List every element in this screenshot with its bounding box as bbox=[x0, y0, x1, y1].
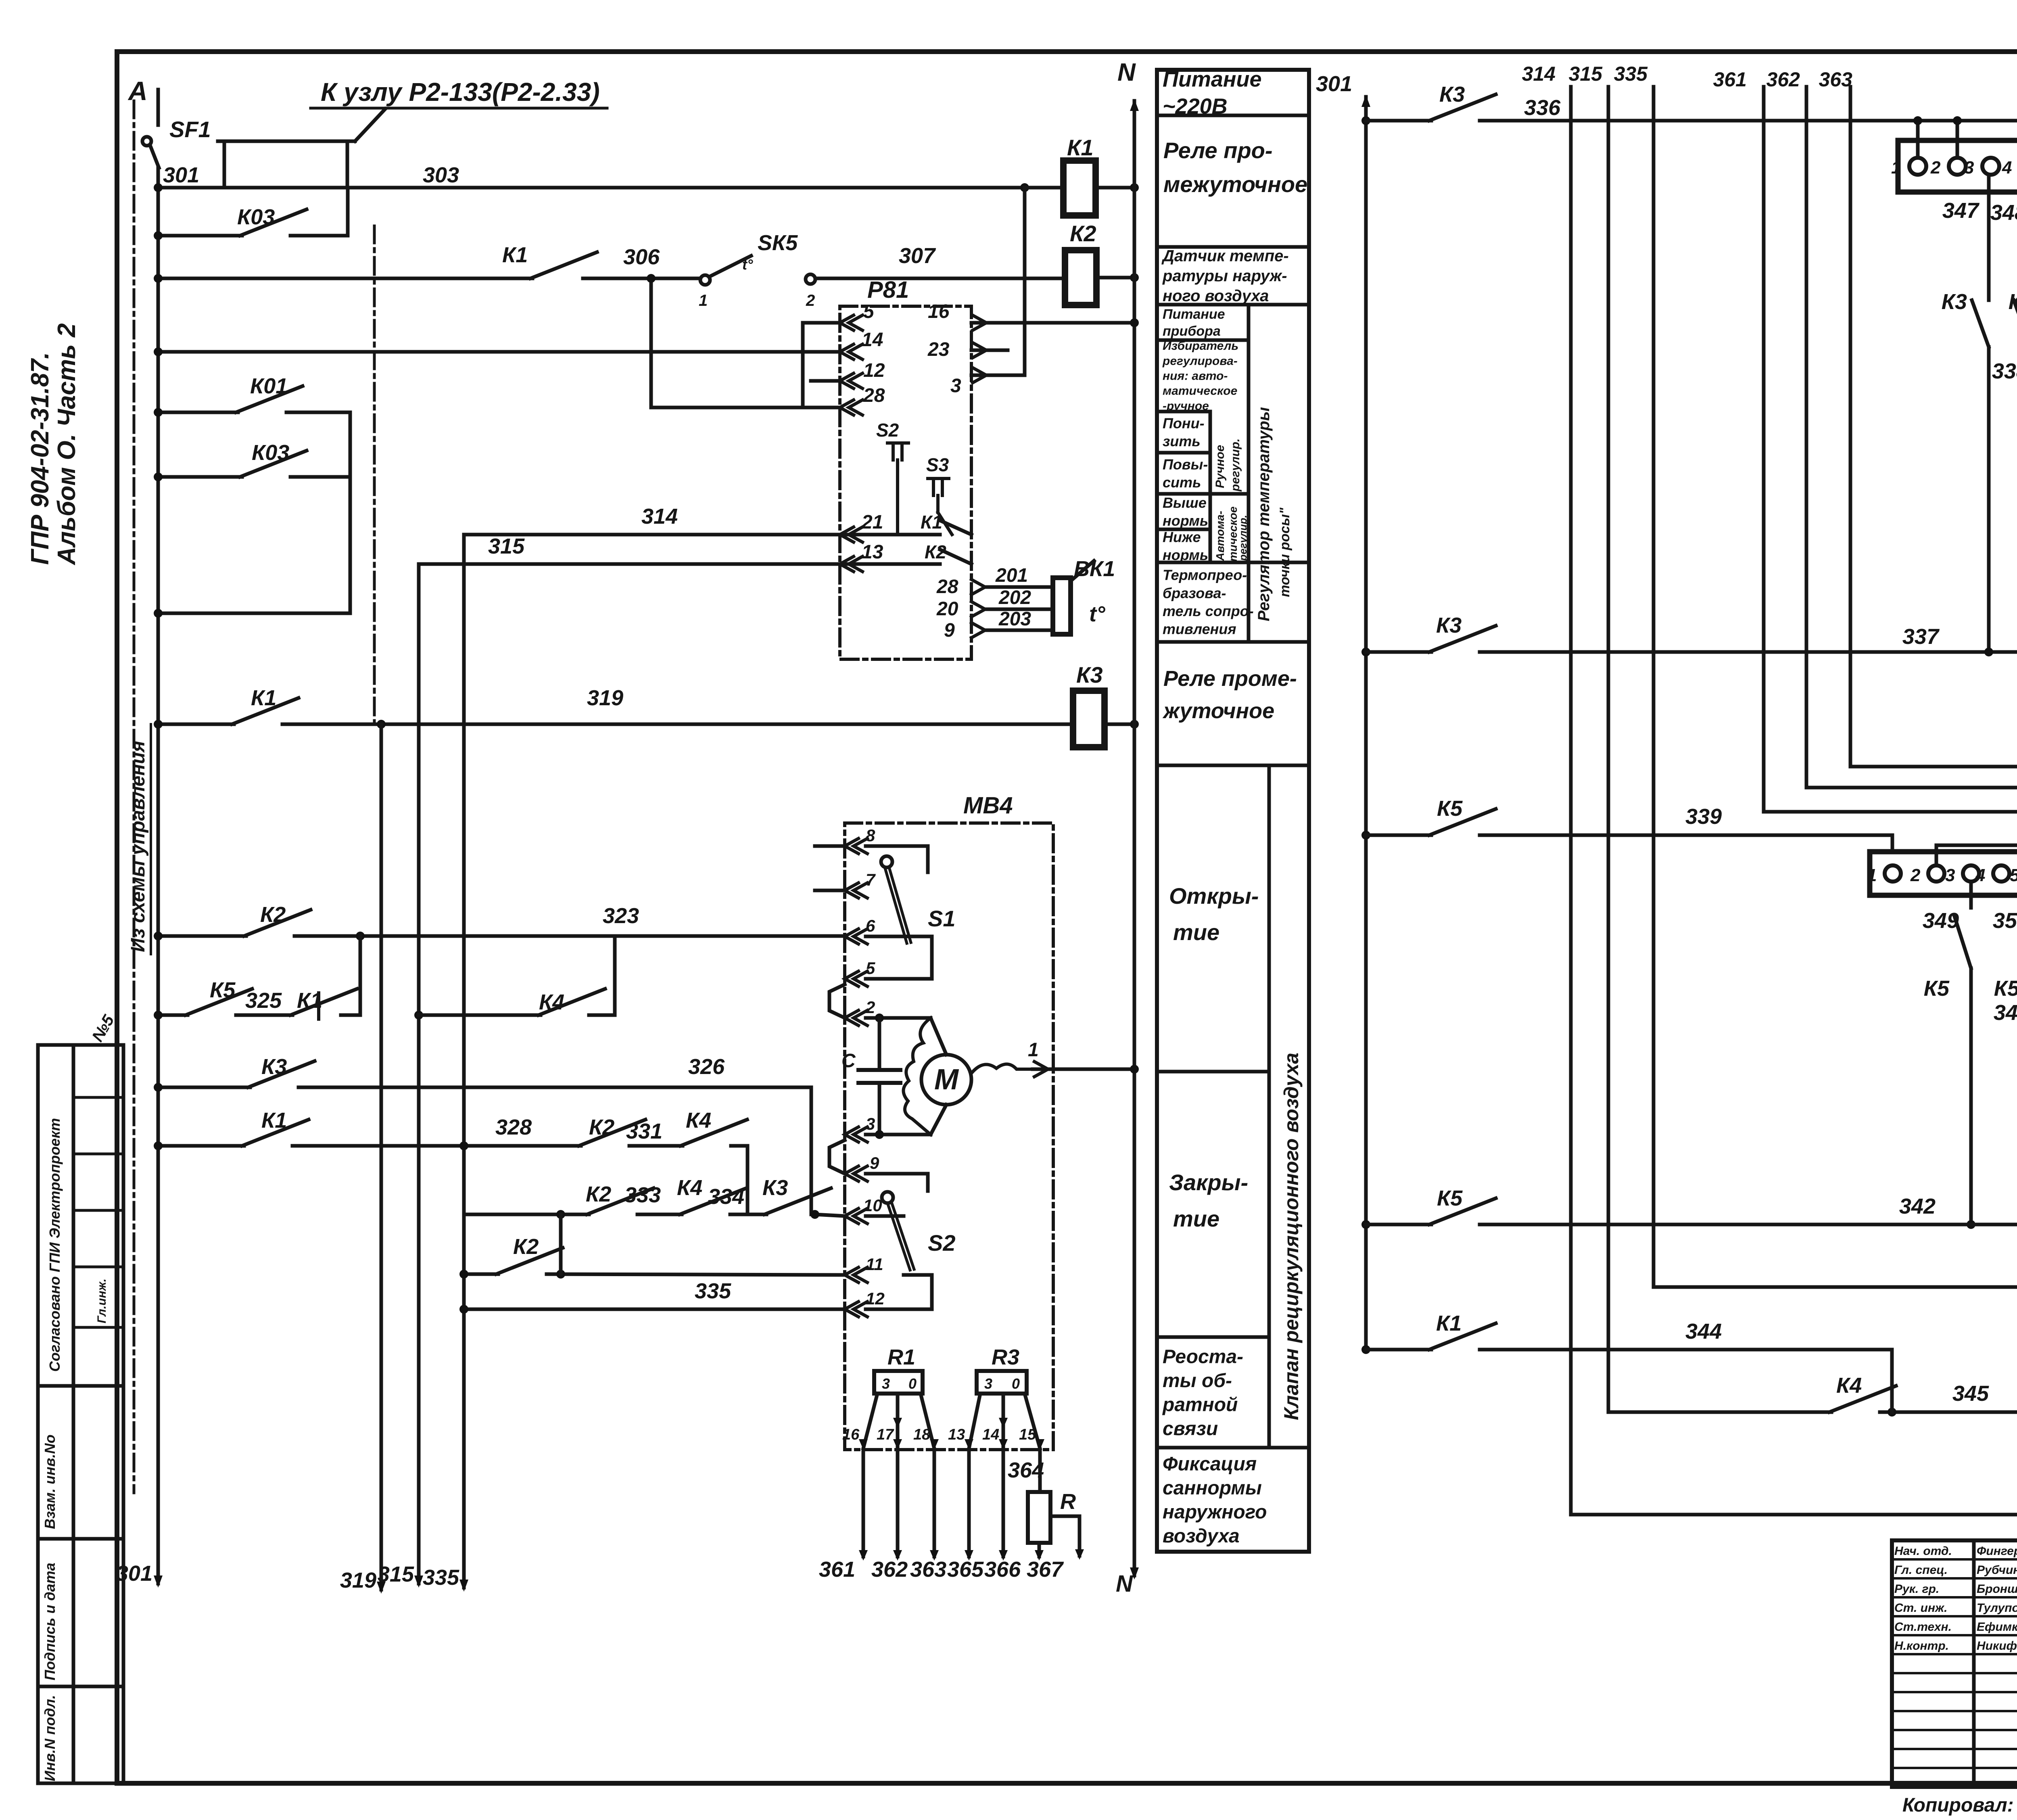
svg-text:Пони-: Пони- bbox=[1163, 415, 1205, 431]
svg-text:21: 21 bbox=[861, 512, 883, 533]
svg-text:12: 12 bbox=[863, 360, 885, 381]
svg-text:К3: К3 bbox=[1439, 82, 1465, 107]
svg-text:регулир.: регулир. bbox=[1237, 515, 1249, 561]
svg-text:К3: К3 bbox=[762, 1176, 788, 1200]
svg-text:Откры-: Откры- bbox=[1169, 883, 1259, 909]
svg-text:К2: К2 bbox=[586, 1182, 611, 1206]
svg-text:3: 3 bbox=[866, 1114, 875, 1133]
svg-text:16: 16 bbox=[928, 301, 950, 322]
svg-text:А: А bbox=[127, 76, 148, 106]
svg-text:12: 12 bbox=[866, 1289, 885, 1308]
svg-text:350: 350 bbox=[1993, 909, 2017, 933]
svg-text:нормы: нормы bbox=[1163, 547, 1212, 563]
svg-text:13: 13 bbox=[862, 541, 883, 563]
motor M of MB4 bbox=[921, 1055, 971, 1105]
svg-text:323: 323 bbox=[603, 904, 639, 928]
svg-text:334: 334 bbox=[708, 1185, 744, 1209]
svg-text:ты об-: ты об- bbox=[1163, 1370, 1232, 1392]
switch S2 of MB4 bbox=[866, 1174, 928, 1191]
callout K uzlu P2-133 bbox=[223, 141, 226, 188]
svg-text:9: 9 bbox=[944, 620, 955, 641]
svg-text:Ниже: Ниже bbox=[1163, 529, 1201, 545]
svg-text:10: 10 bbox=[863, 1196, 882, 1215]
P81 arrow 28 bbox=[840, 400, 854, 415]
wire 363 to KB2 t6 bbox=[1850, 87, 2017, 843]
svg-text:315: 315 bbox=[488, 534, 525, 558]
middle legend table bbox=[1157, 70, 1309, 1552]
contact K1 row wire 319 bbox=[158, 723, 234, 726]
svg-text:R: R bbox=[1060, 1490, 1076, 1514]
svg-text:336: 336 bbox=[1524, 96, 1561, 120]
svg-text:R1: R1 bbox=[887, 1345, 915, 1369]
svg-text:17: 17 bbox=[877, 1426, 894, 1443]
svg-text:К1: К1 bbox=[1436, 1311, 1462, 1335]
svg-text:333: 333 bbox=[624, 1183, 661, 1207]
svg-text:314: 314 bbox=[641, 504, 678, 529]
staff signature table bbox=[1892, 1540, 2017, 1787]
svg-text:20: 20 bbox=[936, 598, 958, 620]
svg-text:342: 342 bbox=[1899, 1194, 1936, 1218]
svg-text:Рубчинский: Рубчинский bbox=[1977, 1563, 2017, 1577]
svg-text:0: 0 bbox=[1012, 1375, 1020, 1392]
terminal strip KB1 bbox=[1898, 140, 2017, 192]
svg-text:N: N bbox=[1117, 59, 1136, 86]
vertical wire 335 run bbox=[462, 535, 466, 1588]
bus tap row bbox=[158, 612, 350, 615]
wire 314 elbow to K5 coil bbox=[1571, 1513, 2017, 1517]
svg-text:Реле проме-: Реле проме- bbox=[1163, 667, 1297, 691]
svg-text:335: 335 bbox=[423, 1565, 459, 1590]
svg-text:К5: К5 bbox=[1437, 796, 1463, 821]
svg-text:Альбом О. Часть 2: Альбом О. Часть 2 bbox=[53, 323, 81, 566]
svg-text:Реоста-: Реоста- bbox=[1163, 1346, 1243, 1368]
wire from KB2 t2 to N bus bbox=[1936, 845, 2017, 865]
MB4 bottom terminals 16 17 18 13 14 15 bbox=[859, 1439, 868, 1450]
svg-text:6: 6 bbox=[866, 916, 875, 935]
svg-text:28: 28 bbox=[863, 385, 885, 406]
switch SK5 bbox=[700, 275, 710, 285]
svg-text:362: 362 bbox=[1766, 68, 1800, 91]
resistor R with wire 364 bbox=[1038, 1450, 1042, 1492]
svg-text:335: 335 bbox=[1614, 63, 1648, 85]
svg-text:ния: авто-: ния: авто- bbox=[1163, 370, 1228, 383]
svg-text:306: 306 bbox=[623, 245, 660, 269]
svg-text:Из схемы управления: Из схемы управления bbox=[127, 741, 149, 952]
svg-text:343: 343 bbox=[1994, 1001, 2017, 1025]
svg-text:28: 28 bbox=[936, 576, 958, 598]
svg-text:Реле про-: Реле про- bbox=[1163, 138, 1273, 163]
P81 arrow 16 out to N bbox=[973, 315, 986, 330]
svg-text:301: 301 bbox=[163, 163, 199, 187]
contact K01 row bbox=[158, 411, 238, 414]
svg-text:325: 325 bbox=[245, 988, 282, 1013]
svg-text:Избиратель: Избиратель bbox=[1163, 339, 1238, 353]
svg-text:К1: К1 bbox=[921, 512, 942, 533]
svg-text:К4: К4 bbox=[1836, 1373, 1862, 1398]
svg-text:5: 5 bbox=[2010, 865, 2017, 885]
row 335 to arrow 12 bbox=[464, 1308, 845, 1311]
svg-text:367: 367 bbox=[1027, 1557, 1064, 1582]
svg-text:Фингер: Фингер bbox=[1977, 1544, 2017, 1558]
row K2 333 K4 334 K3 bbox=[464, 1213, 589, 1216]
svg-text:18: 18 bbox=[913, 1426, 931, 1443]
contact K1 / SK5 / 306 307 row bbox=[158, 277, 226, 280]
svg-text:регулирова-: регулирова- bbox=[1162, 354, 1238, 368]
svg-text:307: 307 bbox=[899, 244, 936, 268]
svg-text:К4: К4 bbox=[677, 1176, 702, 1200]
svg-text:Питание: Питание bbox=[1163, 307, 1225, 322]
svg-text:3: 3 bbox=[950, 375, 961, 397]
svg-text:Инв.N подл.: Инв.N подл. bbox=[42, 1695, 58, 1781]
svg-text:К3: К3 bbox=[1076, 662, 1103, 687]
svg-text:319: 319 bbox=[340, 1568, 376, 1592]
svg-text:N: N bbox=[1116, 1571, 1133, 1597]
contact K03 second row bbox=[158, 475, 242, 479]
svg-text:1: 1 bbox=[1867, 865, 1877, 885]
right bus 301 bbox=[1364, 97, 1368, 1350]
wire 314 with corner bbox=[464, 533, 840, 537]
wire row 336 with contact K3 bbox=[1361, 116, 1370, 125]
svg-text:Автома-: Автома- bbox=[1214, 511, 1226, 561]
svg-text:К3: К3 bbox=[1942, 290, 1967, 314]
svg-text:3: 3 bbox=[1945, 865, 1955, 885]
svg-text:К узлу Р2-133(Р2-2.33): К узлу Р2-133(Р2-2.33) bbox=[321, 77, 600, 107]
bus A bottom arrow 301 bbox=[154, 1576, 163, 1588]
svg-text:Рук. гр.: Рук. гр. bbox=[1894, 1582, 1939, 1596]
wire 344 row with contact K1 bbox=[1361, 1345, 1370, 1354]
svg-text:К4: К4 bbox=[686, 1108, 711, 1133]
svg-text:ратной: ратной bbox=[1162, 1394, 1238, 1416]
svg-text:315: 315 bbox=[1569, 63, 1603, 85]
svg-text:364: 364 bbox=[1008, 1458, 1044, 1482]
svg-text:S1: S1 bbox=[928, 906, 956, 931]
svg-text:Тулупова: Тулупова bbox=[1977, 1601, 2017, 1615]
KB2 t3 wire with contact K5 to wire 342 bbox=[1969, 882, 1973, 908]
svg-text:Ефимкина: Ефимкина bbox=[1977, 1620, 2017, 1634]
P81 arrow 12 bbox=[840, 373, 854, 388]
svg-text:349: 349 bbox=[1923, 909, 1959, 933]
svg-text:S2: S2 bbox=[876, 420, 899, 441]
svg-text:8: 8 bbox=[866, 826, 875, 845]
wire 342 row with contact K5 bbox=[1361, 1220, 1370, 1229]
svg-text:Выше: Выше bbox=[1163, 494, 1207, 511]
svg-text:14: 14 bbox=[982, 1426, 999, 1443]
svg-text:тие: тие bbox=[1173, 1206, 1219, 1231]
svg-text:345: 345 bbox=[1952, 1381, 1989, 1406]
svg-text:бразова-: бразова- bbox=[1163, 585, 1226, 601]
svg-text:3: 3 bbox=[882, 1375, 890, 1392]
svg-text:SК5: SК5 bbox=[758, 231, 798, 255]
svg-text:366: 366 bbox=[984, 1557, 1021, 1582]
svg-text:t°: t° bbox=[1089, 602, 1105, 626]
joining vertical for K01/K03 bbox=[349, 412, 352, 613]
svg-text:К1: К1 bbox=[1067, 135, 1094, 160]
svg-text:S3: S3 bbox=[926, 454, 949, 475]
svg-text:тель сопро-: тель сопро- bbox=[1163, 603, 1254, 619]
svg-text:регулир.: регулир. bbox=[1229, 439, 1242, 492]
dash-dot cabinet boundary lines bbox=[133, 101, 136, 1493]
svg-text:16: 16 bbox=[842, 1426, 860, 1443]
svg-text:328: 328 bbox=[495, 1115, 532, 1139]
svg-text:1: 1 bbox=[699, 292, 708, 309]
svg-text:319: 319 bbox=[587, 686, 623, 710]
svg-text:Никифорова: Никифорова bbox=[1977, 1639, 2017, 1653]
svg-text:Р81: Р81 bbox=[867, 277, 909, 303]
svg-text:К2: К2 bbox=[1070, 221, 1096, 246]
svg-text:К5: К5 bbox=[1924, 976, 1950, 1001]
svg-text:зить: зить bbox=[1163, 433, 1201, 449]
svg-text:Гл. спец.: Гл. спец. bbox=[1894, 1563, 1948, 1577]
MB4 motor output 1 to N bus bbox=[1033, 1068, 1134, 1071]
contact K2 row wire 323 bbox=[158, 934, 246, 938]
svg-text:саннормы: саннормы bbox=[1163, 1477, 1262, 1499]
vertical wire 319 run bbox=[380, 724, 383, 1590]
svg-text:t°: t° bbox=[742, 256, 753, 273]
row K2 to arrow 11 bbox=[464, 1273, 498, 1276]
svg-text:348: 348 bbox=[1990, 201, 2017, 225]
svg-text:14: 14 bbox=[862, 329, 883, 351]
svg-text:13: 13 bbox=[948, 1426, 965, 1443]
svg-text:сить: сить bbox=[1163, 474, 1201, 491]
svg-text:межуточное: межуточное bbox=[1163, 171, 1307, 197]
svg-text:Н.контр.: Н.контр. bbox=[1894, 1639, 1949, 1653]
MB4 stubs bbox=[815, 844, 845, 848]
wire 361 to KB2 t9 bbox=[1764, 87, 2017, 843]
svg-text:МВ4: МВ4 bbox=[963, 792, 1013, 819]
wire row 339 with contact K5 bbox=[1361, 831, 1370, 840]
switch SF1 bbox=[142, 137, 151, 146]
svg-text:К5: К5 bbox=[1994, 976, 2017, 1001]
svg-text:301: 301 bbox=[116, 1561, 152, 1586]
terminal strip KB2 bbox=[1870, 852, 2017, 895]
wire 362 to KB2 t8 bbox=[1806, 87, 2017, 843]
svg-text:Бронштейн: Бронштейн bbox=[1977, 1582, 2017, 1596]
MB4 capacitor C and motor bbox=[866, 1016, 931, 1020]
svg-text:363: 363 bbox=[1819, 68, 1853, 91]
svg-text:Ст.техн.: Ст.техн. bbox=[1894, 1620, 1952, 1634]
svg-text:202: 202 bbox=[998, 587, 1031, 608]
svg-text:365: 365 bbox=[947, 1557, 984, 1582]
svg-text:матическое: матическое bbox=[1163, 384, 1237, 398]
svg-text:23: 23 bbox=[927, 339, 950, 360]
svg-text:С: С bbox=[841, 1050, 856, 1072]
svg-text:Термопрео-: Термопрео- bbox=[1163, 567, 1247, 583]
svg-text:11: 11 bbox=[866, 1255, 883, 1274]
svg-text:3: 3 bbox=[984, 1375, 992, 1392]
svg-text:ВК1: ВК1 bbox=[1074, 557, 1115, 581]
wire 315 elbow to wire 345 with K4 contact bbox=[1608, 1410, 1831, 1414]
switch S1 of MB4 bbox=[866, 846, 928, 872]
left margin stamp table bbox=[38, 1045, 123, 1783]
svg-text:2: 2 bbox=[1930, 158, 1941, 178]
wires 361-367 down from MB4 bbox=[862, 1450, 865, 1557]
KB1 taps from wire 336 bbox=[1916, 121, 1920, 158]
svg-text:Закры-: Закры- bbox=[1169, 1170, 1248, 1195]
svg-text:338: 338 bbox=[1992, 359, 2017, 383]
wire 315 with corner bbox=[419, 562, 840, 566]
svg-text:Регулятор температуры: Регулятор температуры bbox=[1255, 407, 1273, 621]
wire 335 elbow to MB3 t6 bbox=[1654, 1285, 2017, 1289]
wire row to P81 arrow 14 bbox=[158, 350, 840, 354]
row K1 328 K2 331 K4 bbox=[158, 1144, 244, 1148]
svg-text:Клапан рециркуляционного воз: Клапан рециркуляционного воздуха bbox=[1280, 1053, 1303, 1420]
svg-text:1: 1 bbox=[1891, 158, 1901, 178]
svg-text:2: 2 bbox=[865, 998, 875, 1017]
svg-text:Согласовано ГПИ Электропроект: Согласовано ГПИ Электропроект bbox=[46, 1118, 63, 1372]
svg-text:М: М bbox=[934, 1064, 959, 1096]
contact K03 row bbox=[158, 234, 242, 238]
svg-text:точки росы": точки росы" bbox=[1277, 507, 1292, 597]
svg-text:201: 201 bbox=[995, 565, 1028, 586]
contact K3 row wire 326 bbox=[158, 1086, 250, 1089]
MB4 loop bumps bbox=[829, 984, 845, 1018]
svg-text:339: 339 bbox=[1685, 804, 1722, 829]
svg-text:9: 9 bbox=[870, 1153, 879, 1172]
svg-text:прибора: прибора bbox=[1163, 324, 1221, 339]
svg-text:R3: R3 bbox=[992, 1345, 1019, 1369]
svg-text:362: 362 bbox=[871, 1557, 908, 1582]
svg-text:тие: тие bbox=[1173, 919, 1219, 945]
svg-text:Ручное: Ручное bbox=[1213, 445, 1227, 488]
svg-text:SF1: SF1 bbox=[169, 117, 211, 142]
row K5-K1 right branch with K4 bbox=[414, 1011, 423, 1020]
relay coil K1 bbox=[1020, 183, 1029, 192]
svg-text:303: 303 bbox=[423, 163, 459, 187]
svg-text:К5: К5 bbox=[1437, 1186, 1463, 1210]
MB4 numbered arrows bbox=[845, 838, 858, 853]
svg-text:~220В: ~220В bbox=[1163, 94, 1228, 118]
svg-text:5: 5 bbox=[863, 301, 875, 322]
P81 arrow 13 and internal contact K2 bbox=[840, 556, 854, 571]
svg-text:воздуха: воздуха bbox=[1163, 1525, 1240, 1547]
svg-text:Копировал: Фэг: Копировал: Фэг bbox=[1902, 1795, 2017, 1816]
svg-text:2: 2 bbox=[1910, 865, 1921, 885]
svg-text:Взам. инв.No: Взам. инв.No bbox=[42, 1435, 58, 1530]
svg-text:Датчик темпе-: Датчик темпе- bbox=[1161, 247, 1289, 265]
sensor BK1 body bbox=[1053, 578, 1071, 634]
svg-text:337: 337 bbox=[1902, 625, 1940, 649]
svg-text:Повы-: Повы- bbox=[1163, 456, 1208, 472]
svg-text:0: 0 bbox=[908, 1375, 917, 1392]
svg-text:Подпись и дата: Подпись и дата bbox=[42, 1563, 58, 1680]
svg-text:7: 7 bbox=[866, 870, 876, 889]
svg-text:344: 344 bbox=[1685, 1319, 1722, 1344]
svg-text:К3: К3 bbox=[1436, 613, 1462, 637]
svg-text:тивления: тивления bbox=[1163, 621, 1236, 637]
svg-text:331: 331 bbox=[626, 1119, 662, 1143]
svg-text:203: 203 bbox=[998, 608, 1031, 630]
svg-text:-ручное: -ручное bbox=[1163, 399, 1209, 413]
svg-text:ратуры наруж-: ратуры наруж- bbox=[1162, 267, 1287, 285]
svg-text:1: 1 bbox=[1028, 1039, 1039, 1061]
bus A vertical bbox=[157, 168, 160, 1584]
middle table sub column lines bbox=[1247, 305, 1251, 642]
svg-text:Нач. отд.: Нач. отд. bbox=[1894, 1544, 1952, 1558]
svg-text:363: 363 bbox=[910, 1557, 946, 1582]
P81 arrow 14 bbox=[840, 344, 854, 359]
svg-text:Питание: Питание bbox=[1163, 67, 1262, 91]
svg-text:301: 301 bbox=[1316, 72, 1352, 96]
svg-text:наружного: наружного bbox=[1163, 1502, 1267, 1523]
svg-text:347: 347 bbox=[1942, 199, 1980, 223]
svg-text:ного воздуха: ного воздуха bbox=[1163, 287, 1269, 305]
P81 arrow 23 stub bbox=[973, 343, 986, 357]
svg-text:4: 4 bbox=[2002, 158, 2012, 178]
svg-text:К1: К1 bbox=[502, 243, 528, 267]
svg-text:15: 15 bbox=[1019, 1426, 1036, 1443]
svg-text:жуточное: жуточное bbox=[1162, 699, 1274, 723]
P81 arrow 3 to K1-coil branch bbox=[973, 368, 986, 382]
P81 arrow 21 and internal contact K1 bbox=[840, 527, 854, 542]
P81 arrow 5 bbox=[840, 315, 854, 330]
KB1 t3 wire down with contact K3 to wire 337 bbox=[1987, 175, 1991, 300]
svg-text:Гл.инж.: Гл.инж. bbox=[95, 1279, 109, 1323]
svg-text:335: 335 bbox=[695, 1279, 731, 1303]
svg-text:314: 314 bbox=[1522, 63, 1556, 85]
svg-text:Ст. инж.: Ст. инж. bbox=[1894, 1601, 1947, 1615]
svg-text:3: 3 bbox=[1964, 158, 1974, 178]
svg-text:К2: К2 bbox=[513, 1235, 539, 1259]
svg-text:Фиксация: Фиксация bbox=[1163, 1454, 1257, 1475]
svg-text:нормы: нормы bbox=[1163, 512, 1212, 529]
svg-text:ГПР 904-02-31.87.: ГПР 904-02-31.87. bbox=[26, 352, 54, 565]
row K5 325 K1 bbox=[158, 1013, 188, 1017]
svg-text:4: 4 bbox=[1975, 865, 1985, 885]
svg-text:2: 2 bbox=[806, 292, 815, 309]
svg-text:связи: связи bbox=[1163, 1418, 1218, 1440]
svg-text:5: 5 bbox=[866, 959, 875, 978]
svg-text:361: 361 bbox=[819, 1557, 855, 1582]
svg-text:361: 361 bbox=[1713, 68, 1747, 91]
svg-text:S2: S2 bbox=[928, 1230, 956, 1256]
svg-text:326: 326 bbox=[688, 1055, 725, 1079]
